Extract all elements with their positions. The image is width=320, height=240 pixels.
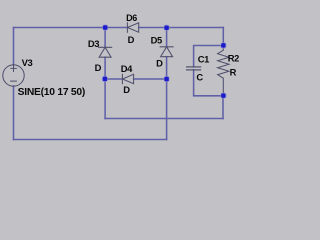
wire bottom rail [14,139,167,141]
wire D4 row horizontal [105,78,122,80]
capacitor C1 [187,66,201,68]
svg-text:SINE(10 17 50): SINE(10 17 50) [18,87,85,98]
wire cap top branch [194,46,224,68]
svg-text:D: D [128,34,135,45]
node dot top-left (D3 top) [102,24,108,30]
svg-text:R: R [230,66,237,77]
svg-text:D6: D6 [126,13,137,23]
wire cap bottom branch [194,70,223,96]
wire D5 branch vertical [166,28,168,47]
svg-text:D: D [156,57,163,68]
diode D4 [122,74,133,83]
node dot D3/D4 junction [102,76,108,82]
svg-text:D3: D3 [88,38,99,49]
node dot top-mid (D5 top) [163,25,169,31]
svg-text:D5: D5 [151,35,162,46]
wire middle horizontal [105,118,223,120]
svg-text:R2: R2 [228,53,239,64]
wire top-right corner drop [222,28,224,46]
svg-text:V3: V3 [22,57,33,68]
diode D3 [99,47,112,57]
wire left vertical upper (V3 top lead) [13,28,15,66]
node dot C/R bottom [220,92,226,98]
wire D3 branch vertical [104,28,106,48]
wire top rail [14,27,128,29]
svg-text:C: C [196,72,203,83]
svg-text:D: D [123,84,130,95]
svg-text:C1: C1 [198,54,209,65]
wire right lower vertical [222,96,224,119]
diode D5 [160,47,173,57]
node dot C/R top [220,42,226,48]
resistor R2 [218,46,229,96]
wire left vertical lower (V3 bottom lead) [13,86,15,140]
voltage source V3 [3,65,24,86]
svg-text:D4: D4 [121,63,133,74]
wire node B down vertical [104,79,106,119]
diode D6 [127,23,138,32]
svg-text:D: D [95,62,102,73]
node dot D4/D5 junction [163,76,169,82]
